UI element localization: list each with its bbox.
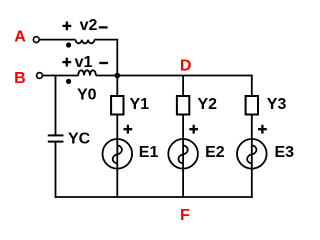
wire node F horizontal — [55, 196, 253, 198]
wire A to inductor v2 — [39, 39, 75, 41]
wire Y2 box to source E2 — [182, 115, 184, 140]
svg-text:v1: v1 — [75, 54, 93, 71]
svg-text:Y2: Y2 — [198, 96, 218, 113]
label - of v2 — [99, 26, 108, 28]
wire B to inductor v1 — [43, 75, 79, 77]
wire E1 to bottom — [116, 169, 118, 198]
svg-text:D: D — [180, 58, 192, 75]
admittance Y3 — [246, 96, 258, 115]
wire D corner down to Y3 box — [251, 75, 253, 97]
admittance Y1 — [111, 96, 123, 115]
inductor v1 — [78, 70, 96, 75]
svg-text:Y1: Y1 — [130, 96, 150, 113]
svg-text:v2: v2 — [80, 17, 98, 34]
svg-text:E3: E3 — [275, 144, 295, 161]
svg-text:Y3: Y3 — [267, 96, 287, 113]
svg-text:E2: E2 — [205, 144, 225, 161]
terminal B — [37, 73, 43, 79]
wire node D horizontal — [117, 75, 252, 77]
terminal A — [33, 37, 39, 43]
source E3 — [237, 139, 267, 169]
label + of E3 — [258, 125, 267, 134]
label + of E2 — [189, 125, 198, 134]
svg-text:B: B — [14, 70, 26, 87]
wire D to Y1 box — [116, 76, 118, 97]
svg-text:E1: E1 — [139, 144, 159, 161]
svg-text:Y0: Y0 — [77, 87, 97, 104]
label + of E1 — [124, 125, 133, 134]
svg-text:YC: YC — [68, 131, 91, 148]
label - of v1 — [99, 62, 108, 64]
wire B branch down to capacitor — [55, 75, 57, 135]
svg-text:F: F — [180, 207, 190, 224]
wire E3 to bottom — [251, 169, 253, 198]
wire D to Y2 box — [182, 76, 184, 97]
source E1 — [103, 139, 133, 169]
source E2 — [168, 139, 198, 169]
wire capacitor to bottom — [55, 143, 57, 198]
wire E2 to bottom — [182, 169, 184, 198]
inductor v2 — [76, 40, 95, 44]
coupling dot v1 — [66, 79, 71, 84]
wire inductor v1 to junction — [96, 75, 117, 77]
wire Y3 box to source E3 — [251, 115, 253, 140]
admittance Y2 — [177, 96, 189, 115]
capacitor YC — [48, 135, 64, 141]
label + of v1 — [62, 58, 71, 67]
wire v2 right vertical — [116, 40, 118, 76]
junction dot at v1/v2 — [115, 73, 121, 79]
wire inductor v2 to corner — [94, 39, 118, 41]
label + of v2 — [63, 22, 72, 31]
svg-text:A: A — [14, 29, 26, 46]
coupling dot v2 — [66, 42, 71, 47]
wire Y1 box to source E1 — [116, 115, 118, 140]
